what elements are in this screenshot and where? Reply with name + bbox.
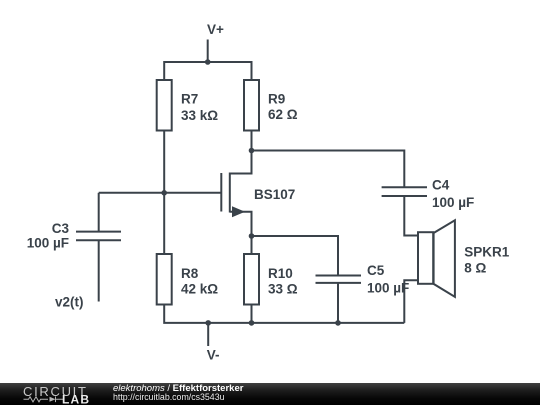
svg-text:v2(t): v2(t) — [55, 294, 84, 309]
capacitor C3 — [76, 193, 121, 302]
wire R7 bottom to gate node — [163, 131, 165, 193]
svg-text:100 µF: 100 µF — [432, 195, 474, 210]
wire V+ stub — [207, 40, 209, 63]
resistor R10 — [244, 254, 259, 305]
label SPKR1 / 8 Ohm — [464, 245, 510, 276]
transistor Q1 BS107 — [221, 151, 251, 237]
net label V- — [207, 347, 220, 362]
label R7 / 33 kOhm — [181, 92, 218, 123]
wire speaker bottom to rail — [404, 280, 417, 323]
wire bottom rail — [164, 305, 404, 323]
wire R9 bottom to drain node — [251, 131, 253, 151]
net label V+ — [207, 22, 224, 37]
svg-text:BS107: BS107 — [254, 187, 295, 202]
svg-text:R10: R10 — [268, 266, 293, 281]
svg-text:62 Ω: 62 Ω — [268, 107, 298, 122]
svg-text:100 µF: 100 µF — [367, 280, 409, 295]
label R10 / 33 Ohm — [268, 266, 298, 297]
svg-text:42 kΩ: 42 kΩ — [181, 282, 218, 297]
capacitor C5 — [316, 276, 362, 323]
label C3 / 100 uF — [27, 221, 70, 250]
svg-text:R8: R8 — [181, 266, 199, 281]
footer bar — [0, 383, 540, 405]
wire drain node to C4 — [252, 151, 405, 187]
node gate junction — [161, 190, 167, 196]
svg-text:LAB: LAB — [62, 393, 90, 405]
resistor R8 — [157, 254, 172, 305]
label C5 / 100 uF — [367, 263, 409, 295]
wire source node to C5 — [252, 236, 339, 275]
wire V- stub — [207, 323, 209, 346]
svg-text:SPKR1: SPKR1 — [464, 245, 510, 260]
svg-text:8 Ω: 8 Ω — [464, 260, 486, 275]
node R10 bottom junction — [249, 320, 255, 326]
node C5 bottom junction — [335, 320, 341, 326]
credits text — [112, 382, 114, 384]
resistor R9 — [244, 80, 259, 131]
svg-text:33 kΩ: 33 kΩ — [181, 108, 218, 123]
label R8 / 42 kOhm — [181, 266, 218, 297]
wire gate wire — [99, 192, 221, 194]
svg-text:100 µF: 100 µF — [27, 236, 69, 251]
node drain junction — [249, 148, 255, 154]
label BS107 — [254, 187, 295, 202]
svg-text:R9: R9 — [268, 91, 285, 106]
capacitor C4 — [382, 187, 427, 235]
svg-text:33 Ω: 33 Ω — [268, 282, 298, 297]
label R9 / 62 Ohm — [268, 91, 298, 122]
svg-text:C5: C5 — [367, 263, 385, 278]
wire R10 top lead — [251, 236, 253, 254]
svg-text:R7: R7 — [181, 92, 198, 107]
label C4 / 100 uF — [432, 178, 474, 210]
wire R8 top lead — [163, 193, 165, 254]
wire top rail — [164, 62, 251, 79]
svg-text:V-: V- — [207, 347, 220, 362]
svg-text:C3: C3 — [52, 221, 70, 236]
svg-text:V+: V+ — [207, 22, 224, 37]
CircuitLab logo — [0, 383, 110, 405]
node source junction — [249, 233, 255, 239]
node V- junction — [205, 320, 211, 326]
wire R10 bottom lead — [251, 305, 253, 323]
net label v2(t) — [55, 294, 84, 309]
node V+ junction — [205, 59, 211, 65]
svg-text:C4: C4 — [432, 178, 450, 193]
resistor R7 — [157, 80, 172, 131]
speaker SPKR1 — [418, 220, 455, 297]
